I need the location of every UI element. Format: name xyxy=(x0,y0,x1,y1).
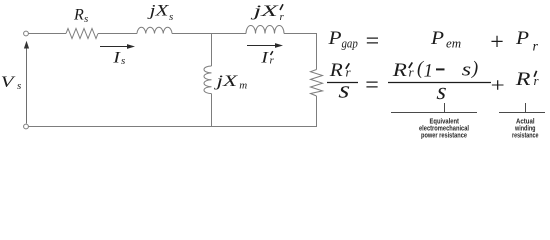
svg-text:I: I xyxy=(112,48,121,66)
svg-text:s: s xyxy=(169,11,173,23)
terminal top-left xyxy=(24,31,29,36)
svg-text:P: P xyxy=(430,28,444,48)
wire jXr to corner xyxy=(284,33,317,35)
svg-text:+: + xyxy=(490,29,504,55)
svg-text:P: P xyxy=(515,28,529,48)
svg-text:=: = xyxy=(366,29,380,55)
svg-text:r: r xyxy=(533,40,539,55)
resistor Rr'/s vertical xyxy=(311,70,323,97)
svg-text:=: = xyxy=(365,72,379,98)
equation 1: P em xyxy=(430,28,444,48)
source arrow Vs xyxy=(24,41,29,124)
arrow Is xyxy=(100,44,135,49)
label jXr' xyxy=(250,2,279,20)
inductor jXr' xyxy=(246,26,284,34)
svg-text:s: s xyxy=(462,59,471,80)
svg-text:): ) xyxy=(471,59,478,79)
big fraction numerator minus xyxy=(436,68,445,70)
resistor Rs xyxy=(66,29,98,39)
label jXs xyxy=(147,2,170,20)
svg-text:P: P xyxy=(327,28,341,48)
shunt wire upper xyxy=(211,34,213,67)
svg-text:s: s xyxy=(17,80,21,92)
svg-text:V: V xyxy=(1,73,17,91)
svg-text:r: r xyxy=(280,11,285,23)
equation 1: P gap xyxy=(327,28,341,48)
label jXm xyxy=(213,72,238,90)
wire jXs to jXr xyxy=(172,33,246,35)
equation 2: R r' term xyxy=(515,69,531,90)
svg-text:r: r xyxy=(409,65,415,80)
svg-text:s: s xyxy=(84,13,88,25)
big fraction numerator R r' xyxy=(392,59,407,80)
svg-text:s: s xyxy=(436,79,448,105)
svg-text:resistance: resistance xyxy=(512,131,539,140)
equation 2: left fraction numerator R r' xyxy=(329,60,343,80)
svg-text:R: R xyxy=(392,59,407,80)
svg-text:1: 1 xyxy=(424,61,433,81)
shunt wire lower xyxy=(211,94,213,127)
right rail lower xyxy=(316,96,318,127)
big fraction numerator s ) xyxy=(462,59,471,80)
terminal bottom-left xyxy=(24,124,29,129)
underbrace equivalent electromechanical power resistance xyxy=(391,103,477,113)
left fraction bar xyxy=(327,82,358,84)
svg-text:r: r xyxy=(270,54,275,66)
svg-text:R: R xyxy=(515,69,531,90)
svg-text:r: r xyxy=(534,73,540,88)
wire top-left segment xyxy=(28,33,66,35)
inductor jXm xyxy=(204,66,212,94)
wire between Rs and jXs xyxy=(98,33,137,35)
svg-text:em: em xyxy=(446,36,461,51)
svg-text:power resistance: power resistance xyxy=(421,131,467,140)
svg-text:s: s xyxy=(338,76,352,103)
equation 1: P r xyxy=(515,28,529,48)
svg-text:jX: jX xyxy=(213,72,238,90)
underbrace actual winding resistance xyxy=(499,103,545,113)
label Is xyxy=(112,48,121,66)
label Vs xyxy=(1,73,17,91)
svg-text:m: m xyxy=(239,79,247,91)
svg-text:R: R xyxy=(73,7,84,24)
big fraction denominator s xyxy=(436,79,448,105)
svg-text:I: I xyxy=(260,48,269,66)
right rail upper xyxy=(316,34,318,70)
bottom wire xyxy=(28,126,317,128)
svg-text:s: s xyxy=(121,55,125,67)
big fraction bar xyxy=(388,82,491,84)
svg-text:gap: gap xyxy=(342,36,359,51)
svg-text:jX: jX xyxy=(147,2,170,20)
svg-text:jX: jX xyxy=(250,2,279,20)
inductor jXs xyxy=(137,27,172,33)
equation 2: plus xyxy=(491,74,505,96)
arrow Ir' xyxy=(247,43,283,48)
svg-text:+: + xyxy=(491,74,505,96)
left fraction denominator s xyxy=(338,76,352,103)
label Ir' xyxy=(260,48,269,66)
